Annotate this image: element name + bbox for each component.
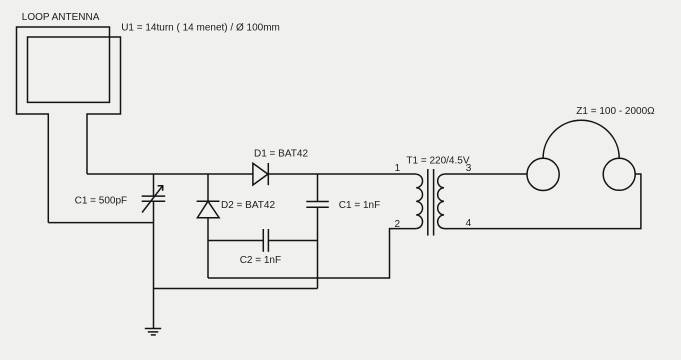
svg-text:D1 = BAT42: D1 = BAT42 <box>254 148 308 159</box>
svg-text:Z1 = 100 - 2000Ω: Z1 = 100 - 2000Ω <box>576 106 655 117</box>
wire C2 right <box>268 240 317 242</box>
wire C1 branch bottom to ground rail <box>153 201 155 288</box>
svg-text:C1 = 500pF: C1 = 500pF <box>75 196 128 207</box>
svg-text:C2 = 1nF: C2 = 1nF <box>240 255 281 266</box>
headphone Z1 headband <box>543 120 619 158</box>
svg-text:C1 = 1nF: C1 = 1nF <box>339 200 380 211</box>
wire C3 branch top <box>317 174 319 202</box>
capacitor C1 variable 500pF <box>142 186 166 213</box>
transformer T1 core <box>428 169 434 236</box>
headphone Z1 left earpiece <box>527 158 559 190</box>
wire C3 branch bottom <box>317 207 319 288</box>
svg-text:3: 3 <box>466 163 472 174</box>
svg-text:T1 = 220/4.5V: T1 = 220/4.5V <box>406 155 469 166</box>
wire C1 branch top <box>153 174 155 196</box>
wire antenna-bottom to C1 node <box>48 222 153 224</box>
capacitor C2 1nF <box>263 229 268 252</box>
diode D1 BAT42 <box>253 163 268 185</box>
svg-text:U1 = 14turn ( 14 menet) / Ø 10: U1 = 14turn ( 14 menet) / Ø 100mm <box>121 23 280 34</box>
wire top rail right (D1 cathode to T1 pin 1) <box>268 173 416 175</box>
wire T1 pin 4 to right earpiece <box>444 174 641 229</box>
wire T1 pin 3 to left earpiece <box>444 173 527 175</box>
headphone Z1 right earpiece <box>603 158 635 190</box>
wire ground stem <box>153 289 155 329</box>
capacitor C3 1nF <box>306 202 329 208</box>
wire D2 branch bottom <box>207 218 209 278</box>
svg-text:D2 = BAT42: D2 = BAT42 <box>221 200 275 211</box>
loop antenna L coil spiral <box>17 27 121 223</box>
svg-text:LOOP ANTENNA: LOOP ANTENNA <box>22 12 100 23</box>
transformer T1 primary winding <box>416 174 422 228</box>
svg-text:2: 2 <box>395 219 401 230</box>
svg-text:1: 1 <box>395 163 401 174</box>
transformer T1 secondary winding <box>438 174 444 228</box>
diode D2 BAT42 <box>197 201 220 218</box>
ground <box>145 329 161 335</box>
wire D2 bottom to T1 pin 2 <box>208 229 416 278</box>
wire C2 left <box>208 240 263 242</box>
wire top rail left (node A) <box>87 173 253 175</box>
svg-text:4: 4 <box>466 218 472 229</box>
wire D2 branch top <box>207 174 209 201</box>
wire ground rail <box>154 288 318 290</box>
